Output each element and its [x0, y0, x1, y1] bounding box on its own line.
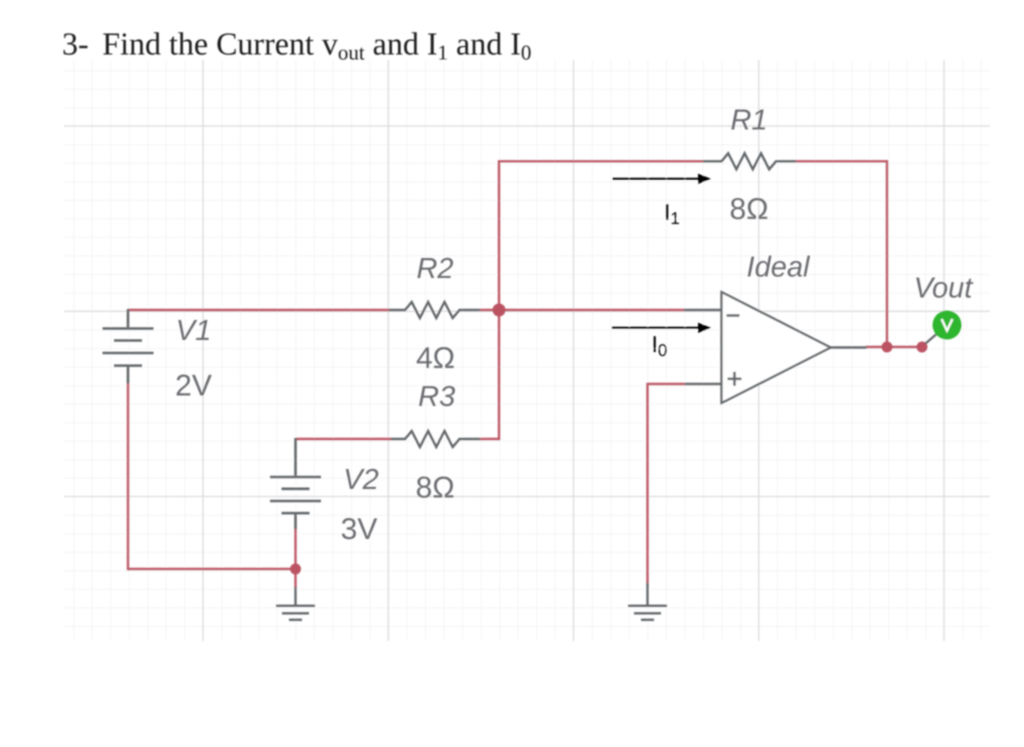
wire op-amp + input horizontal — [648, 383, 686, 385]
op-amp U1 body — [722, 292, 831, 403]
wire top horizontal to R1 left — [498, 160, 704, 162]
wire R1 right to corner — [795, 160, 887, 162]
current arrow I1 — [613, 174, 712, 184]
wire node A up to R1 row — [498, 161, 500, 311]
svg-text:R2: R2 — [416, 253, 453, 285]
svg-text:4Ω: 4Ω — [416, 342, 455, 375]
node A junction dot — [493, 304, 506, 317]
battery V1 — [103, 309, 154, 384]
svg-text:Vout: Vout — [914, 272, 975, 304]
junction dot V2-/V1- — [290, 564, 301, 575]
wire node A vertical down to R3 row — [498, 310, 500, 440]
junction dot at probe — [917, 342, 928, 353]
svg-text:V2: V2 — [343, 464, 378, 496]
svg-text:R1: R1 — [730, 104, 767, 136]
op-amp U1 output lead — [831, 346, 867, 348]
resistor R2 — [389, 302, 480, 318]
svg-text:3-Find the Current vout and I1: 3-Find the Current vout and I1 and I0 — [62, 26, 531, 65]
junction dot output/feedback — [882, 342, 893, 353]
wire op-amp output to probe node — [866, 346, 922, 348]
op-amp U1 non-inverting input lead — [685, 383, 722, 385]
svg-text:3V: 3V — [341, 513, 378, 546]
wire op-amp + down to ground — [646, 383, 648, 583]
wire V2+ to R3 left — [296, 438, 392, 440]
wire feedback vertical down to output node — [886, 160, 888, 347]
svg-text:V1: V1 — [176, 315, 211, 347]
svg-text:R3: R3 — [418, 381, 455, 413]
ground under V2 — [276, 587, 315, 620]
svg-text:Ideal: Ideal — [747, 251, 811, 283]
op-amp plus pin marking — [728, 372, 742, 386]
wire R3 right to vertical — [480, 438, 499, 440]
wire V1- down — [127, 384, 129, 571]
wire V1+ to R2 left — [128, 309, 390, 311]
svg-text:2V: 2V — [175, 369, 212, 402]
resistor R1 — [703, 153, 796, 169]
op-amp minus pin marking — [727, 314, 740, 317]
ground under op-amp + input — [628, 583, 667, 620]
resistor R3 — [391, 431, 480, 447]
wire bottom horizontal V1- to junction — [128, 568, 296, 570]
voltmeter probe Vout — [933, 311, 962, 340]
op-amp U1 inverting input lead — [684, 309, 722, 311]
wire R2 right to op-amp inverting input (through node A) — [480, 309, 685, 311]
current arrow I0 — [612, 323, 711, 333]
svg-text:8Ω: 8Ω — [416, 472, 455, 505]
voltmeter probe tail — [926, 333, 938, 344]
battery V2 — [270, 438, 321, 529]
svg-text:8Ω: 8Ω — [729, 193, 768, 226]
wire V2- down through junction to ground — [294, 529, 296, 587]
grid background — [64, 60, 990, 641]
